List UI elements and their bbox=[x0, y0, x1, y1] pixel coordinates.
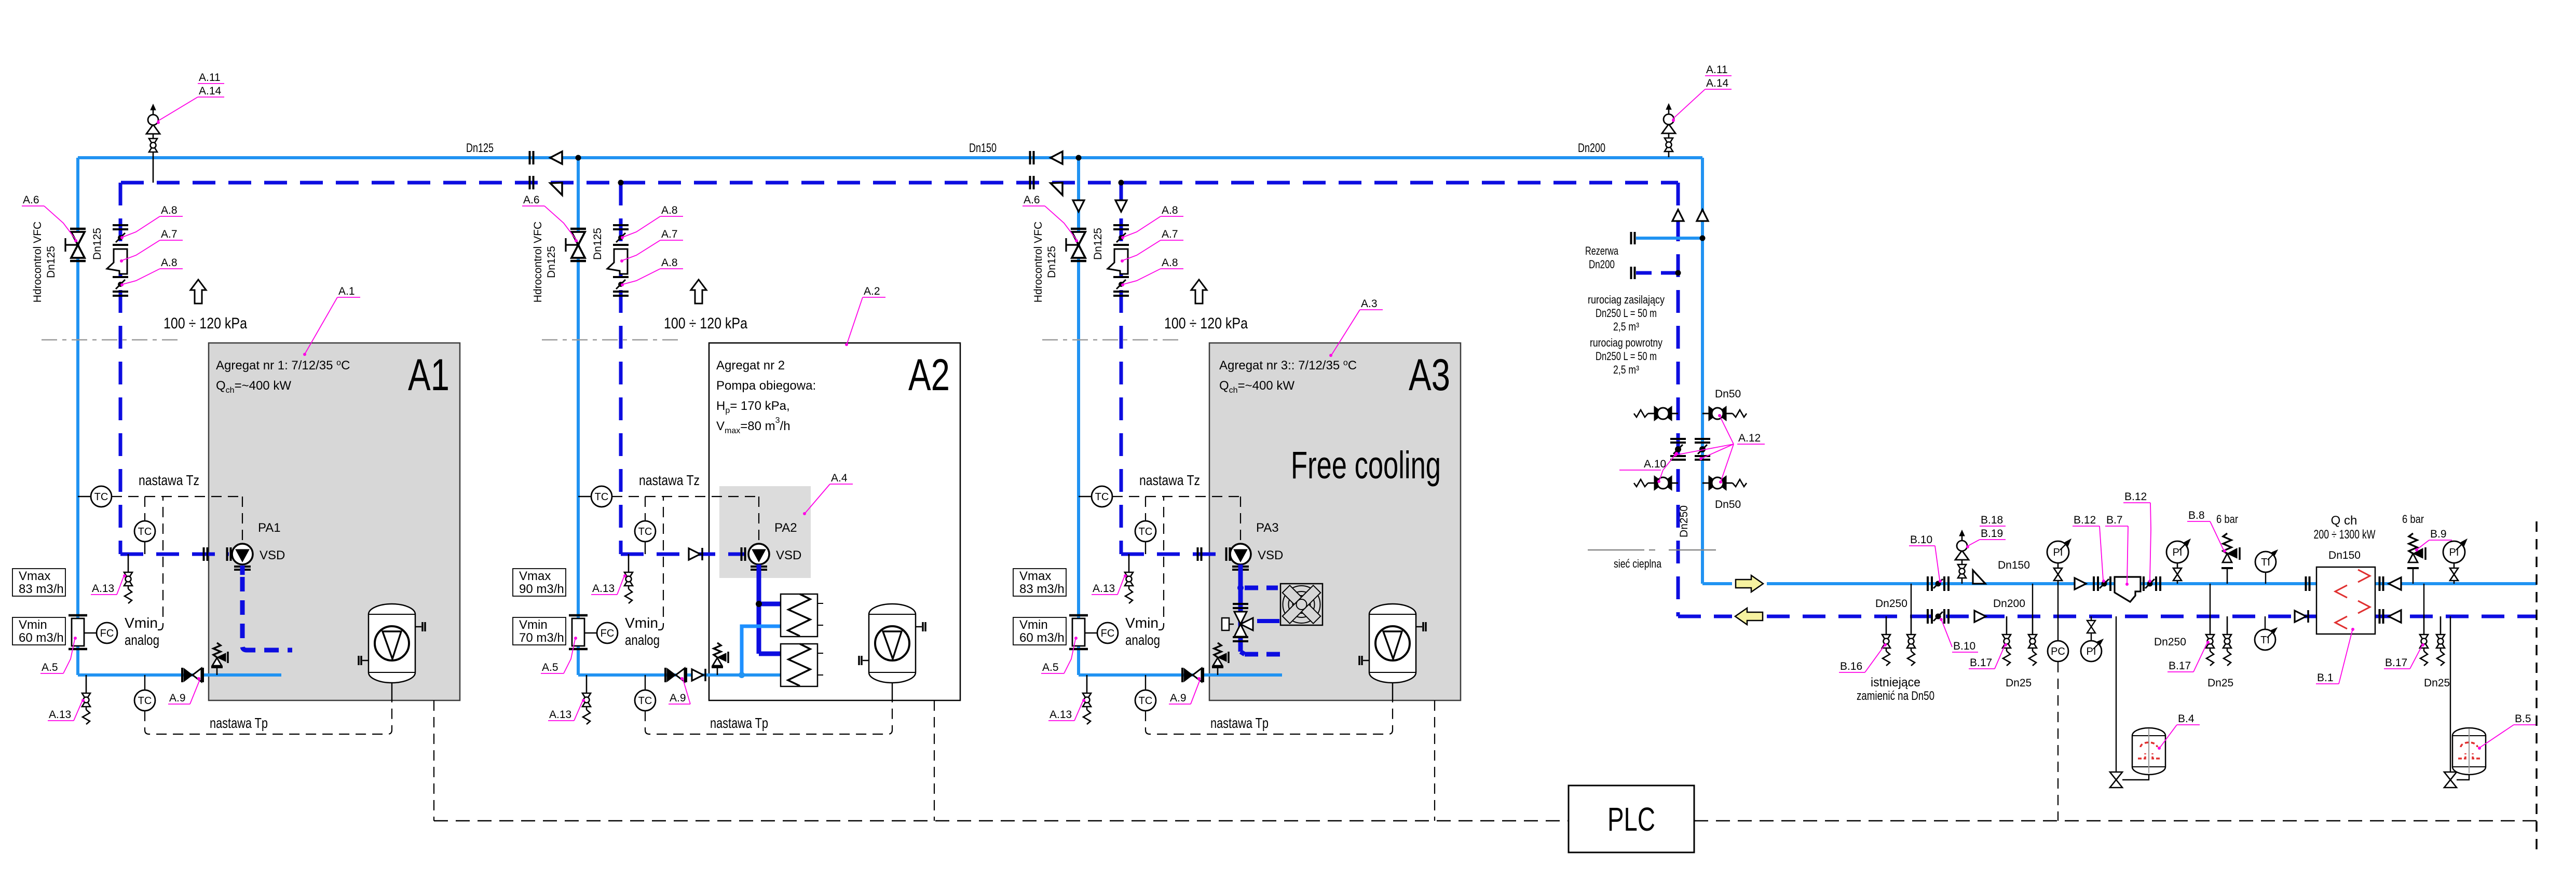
svg-text:B.17: B.17 bbox=[2169, 660, 2191, 672]
svg-text:zamienić na Dn50: zamienić na Dn50 bbox=[1857, 689, 1934, 703]
svg-text:Agregat nr 1: 7/12/35 oC: Agregat nr 1: 7/12/35 oC bbox=[216, 359, 350, 373]
svg-text:PA3: PA3 bbox=[1256, 521, 1279, 535]
svg-text:B.16: B.16 bbox=[1840, 660, 1862, 672]
svg-text:PLC: PLC bbox=[1607, 801, 1655, 838]
svg-text:TC: TC bbox=[595, 491, 609, 503]
svg-text:Vmax: Vmax bbox=[519, 569, 551, 583]
svg-text:TC: TC bbox=[638, 526, 652, 538]
svg-text:B.9: B.9 bbox=[2430, 528, 2447, 540]
svg-text:PA1: PA1 bbox=[258, 521, 281, 535]
svg-text:A.6: A.6 bbox=[1024, 194, 1040, 206]
svg-text:Dn50: Dn50 bbox=[1715, 388, 1741, 400]
svg-text:B.8: B.8 bbox=[2188, 509, 2205, 521]
svg-text:Dn200: Dn200 bbox=[1589, 258, 1615, 271]
svg-text:FC: FC bbox=[1101, 628, 1115, 639]
svg-text:Dn25: Dn25 bbox=[2207, 677, 2233, 689]
svg-text:A.7: A.7 bbox=[1162, 228, 1178, 240]
svg-text:Free cooling: Free cooling bbox=[1291, 444, 1441, 487]
svg-text:VSD: VSD bbox=[776, 548, 801, 562]
svg-text:B.12: B.12 bbox=[2124, 491, 2147, 503]
svg-text:Dn25: Dn25 bbox=[2006, 677, 2032, 689]
svg-text:A.5: A.5 bbox=[542, 661, 558, 673]
svg-text:A.13: A.13 bbox=[549, 709, 571, 721]
svg-text:Rezerwa: Rezerwa bbox=[1585, 244, 1619, 257]
svg-text:A.7: A.7 bbox=[161, 228, 178, 240]
svg-text:Dn125: Dn125 bbox=[45, 246, 57, 278]
svg-text:istniejące: istniejące bbox=[1871, 676, 1920, 690]
svg-text:100 ÷ 120 kPa: 100 ÷ 120 kPa bbox=[163, 315, 247, 332]
svg-text:FC: FC bbox=[100, 628, 114, 639]
svg-text:A.13: A.13 bbox=[1093, 583, 1115, 595]
svg-text:A.1: A.1 bbox=[338, 285, 355, 297]
svg-text:A.13: A.13 bbox=[92, 583, 114, 595]
svg-text:sieć cieplna: sieć cieplna bbox=[1614, 557, 1662, 570]
svg-text:Dn125: Dn125 bbox=[91, 228, 103, 260]
svg-text:Pompa obiegowa:: Pompa obiegowa: bbox=[716, 379, 816, 393]
svg-text:A.6: A.6 bbox=[23, 194, 39, 206]
svg-text:A.9: A.9 bbox=[1170, 692, 1187, 704]
svg-text:PC: PC bbox=[2051, 646, 2065, 657]
svg-text:nastawa Tz: nastawa Tz bbox=[639, 472, 700, 488]
svg-text:A.8: A.8 bbox=[1162, 257, 1178, 269]
svg-text:TC: TC bbox=[1139, 695, 1153, 707]
svg-text:Dn125: Dn125 bbox=[466, 141, 494, 155]
svg-text:Vmin: Vmin bbox=[519, 618, 548, 632]
svg-text:A2: A2 bbox=[908, 350, 950, 400]
svg-text:Hdrocontrol VFC: Hdrocontrol VFC bbox=[1032, 222, 1044, 302]
svg-text:Dn200: Dn200 bbox=[1993, 598, 2025, 610]
svg-text:A.9: A.9 bbox=[169, 692, 186, 704]
svg-text:B.12: B.12 bbox=[2074, 514, 2096, 526]
svg-text:TC: TC bbox=[138, 526, 152, 538]
svg-text:Vmax: Vmax bbox=[19, 569, 50, 583]
svg-text:A.6: A.6 bbox=[523, 194, 540, 206]
svg-text:6 bar: 6 bar bbox=[2402, 513, 2424, 526]
svg-text:Dn150: Dn150 bbox=[2328, 549, 2361, 561]
svg-text:Vmin: Vmin bbox=[1125, 615, 1158, 631]
svg-text:6 bar: 6 bar bbox=[2216, 513, 2238, 526]
svg-text:A.12: A.12 bbox=[1738, 432, 1761, 444]
svg-text:A.13: A.13 bbox=[49, 709, 71, 721]
svg-text:analog: analog bbox=[125, 632, 159, 648]
svg-text:Dn200: Dn200 bbox=[1578, 141, 1605, 155]
svg-text:A.4: A.4 bbox=[831, 472, 848, 484]
svg-text:nastawa Tz: nastawa Tz bbox=[139, 472, 199, 488]
svg-text:70 m3/h: 70 m3/h bbox=[519, 631, 564, 645]
svg-text:2,5 m³: 2,5 m³ bbox=[1613, 363, 1639, 376]
svg-text:A.10: A.10 bbox=[1644, 458, 1666, 470]
svg-text:Dn150: Dn150 bbox=[969, 141, 997, 155]
svg-text:60 m3/h: 60 m3/h bbox=[1019, 631, 1065, 645]
svg-text:Hdrocontrol VFC: Hdrocontrol VFC bbox=[32, 222, 44, 302]
svg-text:Dn250: Dn250 bbox=[2154, 636, 2186, 648]
svg-text:B.17: B.17 bbox=[1970, 657, 1992, 669]
svg-text:B.10: B.10 bbox=[1910, 534, 1932, 546]
svg-text:VSD: VSD bbox=[1258, 548, 1283, 562]
svg-text:A.13: A.13 bbox=[1050, 709, 1072, 721]
svg-text:A.8: A.8 bbox=[1162, 204, 1178, 216]
svg-text:Dn250: Dn250 bbox=[1875, 598, 1907, 610]
svg-text:A.3: A.3 bbox=[1361, 298, 1378, 310]
svg-text:A.9: A.9 bbox=[670, 692, 686, 704]
svg-text:A.5: A.5 bbox=[1042, 661, 1059, 673]
svg-text:TC: TC bbox=[94, 491, 108, 503]
svg-text:A.8: A.8 bbox=[161, 257, 178, 269]
svg-text:B.19: B.19 bbox=[1981, 528, 2003, 540]
svg-text:60 m3/h: 60 m3/h bbox=[19, 631, 64, 645]
svg-text:Agregat nr 2: Agregat nr 2 bbox=[716, 359, 785, 373]
svg-text:Dn25: Dn25 bbox=[2424, 677, 2450, 689]
svg-text:nastawa Tp: nastawa Tp bbox=[1210, 715, 1269, 731]
svg-text:Vmin: Vmin bbox=[19, 618, 47, 632]
svg-text:nastawa Tz: nastawa Tz bbox=[1139, 472, 1200, 488]
svg-text:Q ch: Q ch bbox=[2331, 514, 2357, 528]
svg-text:2,5 m³: 2,5 m³ bbox=[1613, 320, 1639, 333]
svg-text:PA2: PA2 bbox=[774, 521, 797, 535]
svg-text:200 ÷ 1300 kW: 200 ÷ 1300 kW bbox=[2314, 528, 2376, 542]
svg-text:A.8: A.8 bbox=[661, 204, 678, 216]
svg-text:Dn250: Dn250 bbox=[1678, 505, 1690, 538]
svg-text:Dn125: Dn125 bbox=[1046, 246, 1058, 278]
svg-text:rurociag zasilający: rurociag zasilający bbox=[1588, 293, 1665, 306]
svg-text:A1: A1 bbox=[408, 350, 449, 400]
svg-text:Vmin: Vmin bbox=[1019, 618, 1048, 632]
svg-text:A3: A3 bbox=[1409, 350, 1450, 400]
svg-text:rurociag powrotny: rurociag powrotny bbox=[1590, 336, 1662, 349]
svg-text:Hdrocontrol VFC: Hdrocontrol VFC bbox=[532, 222, 544, 302]
svg-text:B.5: B.5 bbox=[2515, 713, 2531, 725]
svg-text:B.18: B.18 bbox=[1981, 514, 2003, 526]
svg-text:B.17: B.17 bbox=[2385, 657, 2407, 669]
svg-text:Dn125: Dn125 bbox=[592, 228, 604, 260]
svg-text:Vmax: Vmax bbox=[1019, 569, 1051, 583]
svg-text:90 m3/h: 90 m3/h bbox=[519, 582, 564, 596]
svg-text:Dn125: Dn125 bbox=[1092, 228, 1104, 260]
svg-text:VSD: VSD bbox=[260, 548, 285, 562]
svg-text:Dn150: Dn150 bbox=[1998, 559, 2030, 571]
svg-text:nastawa Tp: nastawa Tp bbox=[710, 715, 768, 731]
svg-text:Vmin: Vmin bbox=[625, 615, 658, 631]
svg-text:A.11: A.11 bbox=[1706, 64, 1728, 76]
svg-text:A.8: A.8 bbox=[161, 204, 178, 216]
svg-text:TC: TC bbox=[1139, 526, 1153, 538]
svg-text:TC: TC bbox=[138, 695, 152, 707]
svg-text:B.10: B.10 bbox=[1953, 640, 1975, 652]
svg-text:TC: TC bbox=[638, 695, 652, 707]
svg-text:Dn250 L = 50 m: Dn250 L = 50 m bbox=[1596, 307, 1657, 320]
svg-text:A.5: A.5 bbox=[42, 661, 58, 673]
svg-text:nastawa Tp: nastawa Tp bbox=[210, 715, 268, 731]
svg-text:A.13: A.13 bbox=[592, 583, 615, 595]
svg-text:Dn250 L = 50 m: Dn250 L = 50 m bbox=[1596, 350, 1657, 363]
svg-text:A.14: A.14 bbox=[1706, 77, 1729, 89]
svg-text:100 ÷ 120 kPa: 100 ÷ 120 kPa bbox=[1164, 315, 1248, 332]
svg-text:analog: analog bbox=[625, 632, 660, 648]
svg-text:Dn125: Dn125 bbox=[546, 246, 557, 278]
svg-text:B.1: B.1 bbox=[2317, 672, 2334, 684]
svg-text:100 ÷ 120 kPa: 100 ÷ 120 kPa bbox=[664, 315, 747, 332]
svg-text:Vmin: Vmin bbox=[125, 615, 158, 631]
svg-text:83 m3/h: 83 m3/h bbox=[19, 582, 64, 596]
svg-text:Dn50: Dn50 bbox=[1715, 499, 1741, 511]
svg-text:A.8: A.8 bbox=[661, 257, 678, 269]
svg-text:FC: FC bbox=[601, 628, 615, 639]
svg-text:B.4: B.4 bbox=[2178, 713, 2195, 725]
svg-text:A.7: A.7 bbox=[661, 228, 678, 240]
svg-text:A.14: A.14 bbox=[199, 85, 222, 97]
svg-text:83 m3/h: 83 m3/h bbox=[1019, 582, 1065, 596]
svg-text:analog: analog bbox=[1125, 632, 1160, 648]
svg-text:A.2: A.2 bbox=[864, 285, 880, 297]
svg-text:B.7: B.7 bbox=[2106, 514, 2123, 526]
svg-text:Agregat nr 3:: 7/12/35 oC: Agregat nr 3:: 7/12/35 oC bbox=[1219, 359, 1357, 373]
svg-text:TC: TC bbox=[1095, 491, 1109, 503]
svg-text:A.11: A.11 bbox=[199, 72, 221, 84]
